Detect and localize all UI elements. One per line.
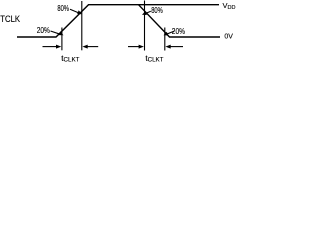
node 80% rise reference line bbox=[81, 1, 83, 50]
wire 80% pointer rising bbox=[70, 9, 82, 14]
svg-text:tCLKT: tCLKT bbox=[61, 54, 79, 64]
svg-text:80%: 80% bbox=[151, 6, 163, 15]
wire waveform low-high-top segment bbox=[17, 5, 219, 37]
wire fall time right measure arrow bbox=[165, 45, 183, 49]
node 20% fall reference line bbox=[164, 28, 166, 51]
wire rise time left measure arrow bbox=[43, 45, 62, 49]
svg-text:VDD: VDD bbox=[223, 1, 236, 11]
wire 20% pointer falling bbox=[164, 31, 175, 36]
node 20% rise reference line bbox=[61, 28, 63, 51]
svg-text:0V: 0V bbox=[224, 32, 233, 41]
wire fall time left measure arrow bbox=[128, 45, 144, 49]
svg-text:20%: 20% bbox=[37, 26, 50, 35]
wire rise time right measure arrow bbox=[82, 45, 98, 49]
wire 80% pointer falling bbox=[142, 11, 151, 15]
wire falling edge and low right segment bbox=[139, 5, 221, 37]
wire 20% pointer rising bbox=[51, 31, 64, 35]
svg-text:TCLK: TCLK bbox=[0, 14, 20, 24]
svg-text:tCLKT: tCLKT bbox=[145, 54, 163, 64]
node 80% fall reference line bbox=[144, 1, 146, 51]
svg-text:80%: 80% bbox=[57, 4, 69, 13]
